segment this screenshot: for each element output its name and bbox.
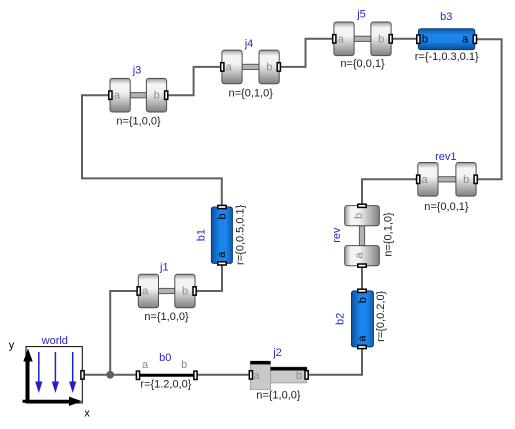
- pin frame_a of b3: [462, 34, 476, 46]
- wire b2.frame_a to j2.frame_b: [307, 347, 363, 375]
- pin frame_b of b3: [417, 34, 428, 46]
- svg-text:a: a: [142, 286, 149, 298]
- revolute joint j4: [222, 50, 279, 84]
- svg-text:a: a: [356, 335, 368, 342]
- svg-text:r={0,0.2,0}: r={0,0.2,0}: [375, 290, 387, 341]
- svg-text:world: world: [41, 335, 68, 347]
- wire junction to j1.frame_a: [110, 291, 139, 375]
- svg-text:y: y: [9, 339, 15, 351]
- svg-text:b2: b2: [335, 313, 347, 325]
- wire rev1.frame_a to rev.frame_b: [362, 179, 418, 205]
- wire j2.frame_a to b0.frame_b: [196, 374, 251, 376]
- svg-text:n={0,0,1}: n={0,0,1}: [424, 201, 469, 213]
- pin frame_b of j4: [266, 61, 280, 73]
- svg-text:a: a: [422, 174, 429, 186]
- pin frame_b of j5: [378, 33, 392, 45]
- svg-text:a: a: [338, 33, 345, 45]
- prismatic joint j2: [250, 361, 307, 390]
- svg-text:b: b: [378, 33, 384, 45]
- svg-text:n={0,0,1}: n={0,0,1}: [340, 58, 385, 70]
- revolute joint rev (vertical): [345, 206, 380, 266]
- pin frame_a of b0: [136, 359, 149, 379]
- svg-text:b: b: [181, 359, 187, 371]
- pin frame_b of b0: [181, 359, 197, 379]
- wire j3.frame_a to b1.frame_b: [82, 95, 222, 206]
- pin frame_b of b2: [357, 289, 369, 303]
- svg-text:r={0,0.5,0.1}: r={0,0.5,0.1}: [235, 204, 247, 265]
- pin frame_a of b2: [356, 335, 368, 349]
- svg-text:b: b: [182, 286, 188, 298]
- junction node at world output: [106, 371, 114, 379]
- pin frame_b of j3: [154, 90, 168, 102]
- svg-text:b: b: [357, 297, 369, 303]
- svg-text:j2: j2: [272, 347, 282, 359]
- svg-text:a: a: [142, 359, 149, 371]
- pin frame_b of b1: [217, 205, 229, 219]
- svg-text:n={1,0,0}: n={1,0,0}: [256, 389, 301, 401]
- svg-text:b: b: [217, 213, 229, 219]
- revolute joint j5: [334, 22, 391, 56]
- pin frame_a of j2: [249, 370, 260, 382]
- svg-text:a: a: [114, 90, 121, 102]
- body b2 (fixed translation rod, vertical): [352, 291, 374, 347]
- pin frame_a of j3: [109, 90, 121, 102]
- wire world.frame_b to b0.frame_a: [84, 374, 138, 376]
- svg-text:a: a: [462, 34, 469, 46]
- svg-text:b: b: [266, 61, 272, 73]
- svg-text:a: a: [353, 252, 365, 259]
- wire j5.frame_b to b3.frame_b: [391, 38, 418, 40]
- svg-text:n={0,1,0}: n={0,1,0}: [383, 212, 395, 257]
- pin frame_a of rev: [353, 252, 366, 268]
- wire b3.frame_a to rev1.frame_b: [475, 39, 502, 179]
- svg-text:r={1.2,0,0}: r={1.2,0,0}: [140, 378, 191, 390]
- world frame W with gravity arrows: [9, 339, 91, 419]
- wire rev.frame_a to b2.frame_b: [361, 266, 363, 291]
- svg-text:n={0,1,0}: n={0,1,0}: [229, 88, 274, 100]
- pin frame_a of b1: [216, 251, 228, 265]
- body b3 (fixed translation rod, horizontal): [418, 29, 474, 50]
- svg-text:b: b: [353, 213, 365, 219]
- pin frame_a of j5: [333, 33, 345, 45]
- fixed translation b0 (bar): [139, 374, 195, 377]
- pin frame_b of rev1: [463, 174, 477, 186]
- svg-text:rev: rev: [331, 227, 343, 243]
- svg-text:a: a: [226, 61, 233, 73]
- pin frame_b of world: [81, 371, 84, 379]
- svg-text:j4: j4: [244, 38, 254, 50]
- svg-text:b: b: [154, 90, 160, 102]
- svg-text:r={-1,0.3,0.1}: r={-1,0.3,0.1}: [415, 51, 479, 63]
- svg-text:b0: b0: [159, 352, 171, 364]
- svg-text:a: a: [253, 370, 260, 382]
- svg-text:b: b: [296, 370, 302, 382]
- revolute joint rev1: [418, 163, 476, 197]
- pin frame_a of j4: [221, 61, 233, 73]
- svg-text:b: b: [422, 34, 428, 46]
- svg-text:n={1,0,0}: n={1,0,0}: [116, 116, 161, 128]
- svg-text:rev1: rev1: [435, 151, 456, 163]
- wire j4.frame_b to j5.frame_a: [279, 39, 335, 67]
- svg-text:b1: b1: [195, 229, 207, 241]
- pin frame_b of j1: [182, 286, 196, 298]
- svg-text:x: x: [84, 407, 90, 419]
- revolute joint j1: [138, 274, 195, 308]
- svg-text:j3: j3: [132, 65, 142, 77]
- svg-text:n={1,0,0}: n={1,0,0}: [144, 311, 189, 323]
- revolute joint j3: [110, 78, 167, 112]
- svg-text:a: a: [216, 251, 228, 258]
- pin frame_a of j1: [137, 286, 149, 298]
- wire j3.frame_b to j4.frame_a: [166, 67, 222, 95]
- pin frame_b of rev: [353, 204, 366, 219]
- pin frame_b of j2: [296, 370, 308, 382]
- body b1 (fixed translation rod, vertical): [211, 207, 232, 263]
- wire j1.frame_b to b1.frame_a: [195, 264, 222, 292]
- svg-text:b: b: [463, 174, 469, 186]
- svg-text:j1: j1: [159, 262, 169, 274]
- svg-text:b3: b3: [440, 11, 452, 23]
- svg-text:j5: j5: [356, 8, 366, 20]
- pin frame_a of rev1: [417, 174, 429, 186]
